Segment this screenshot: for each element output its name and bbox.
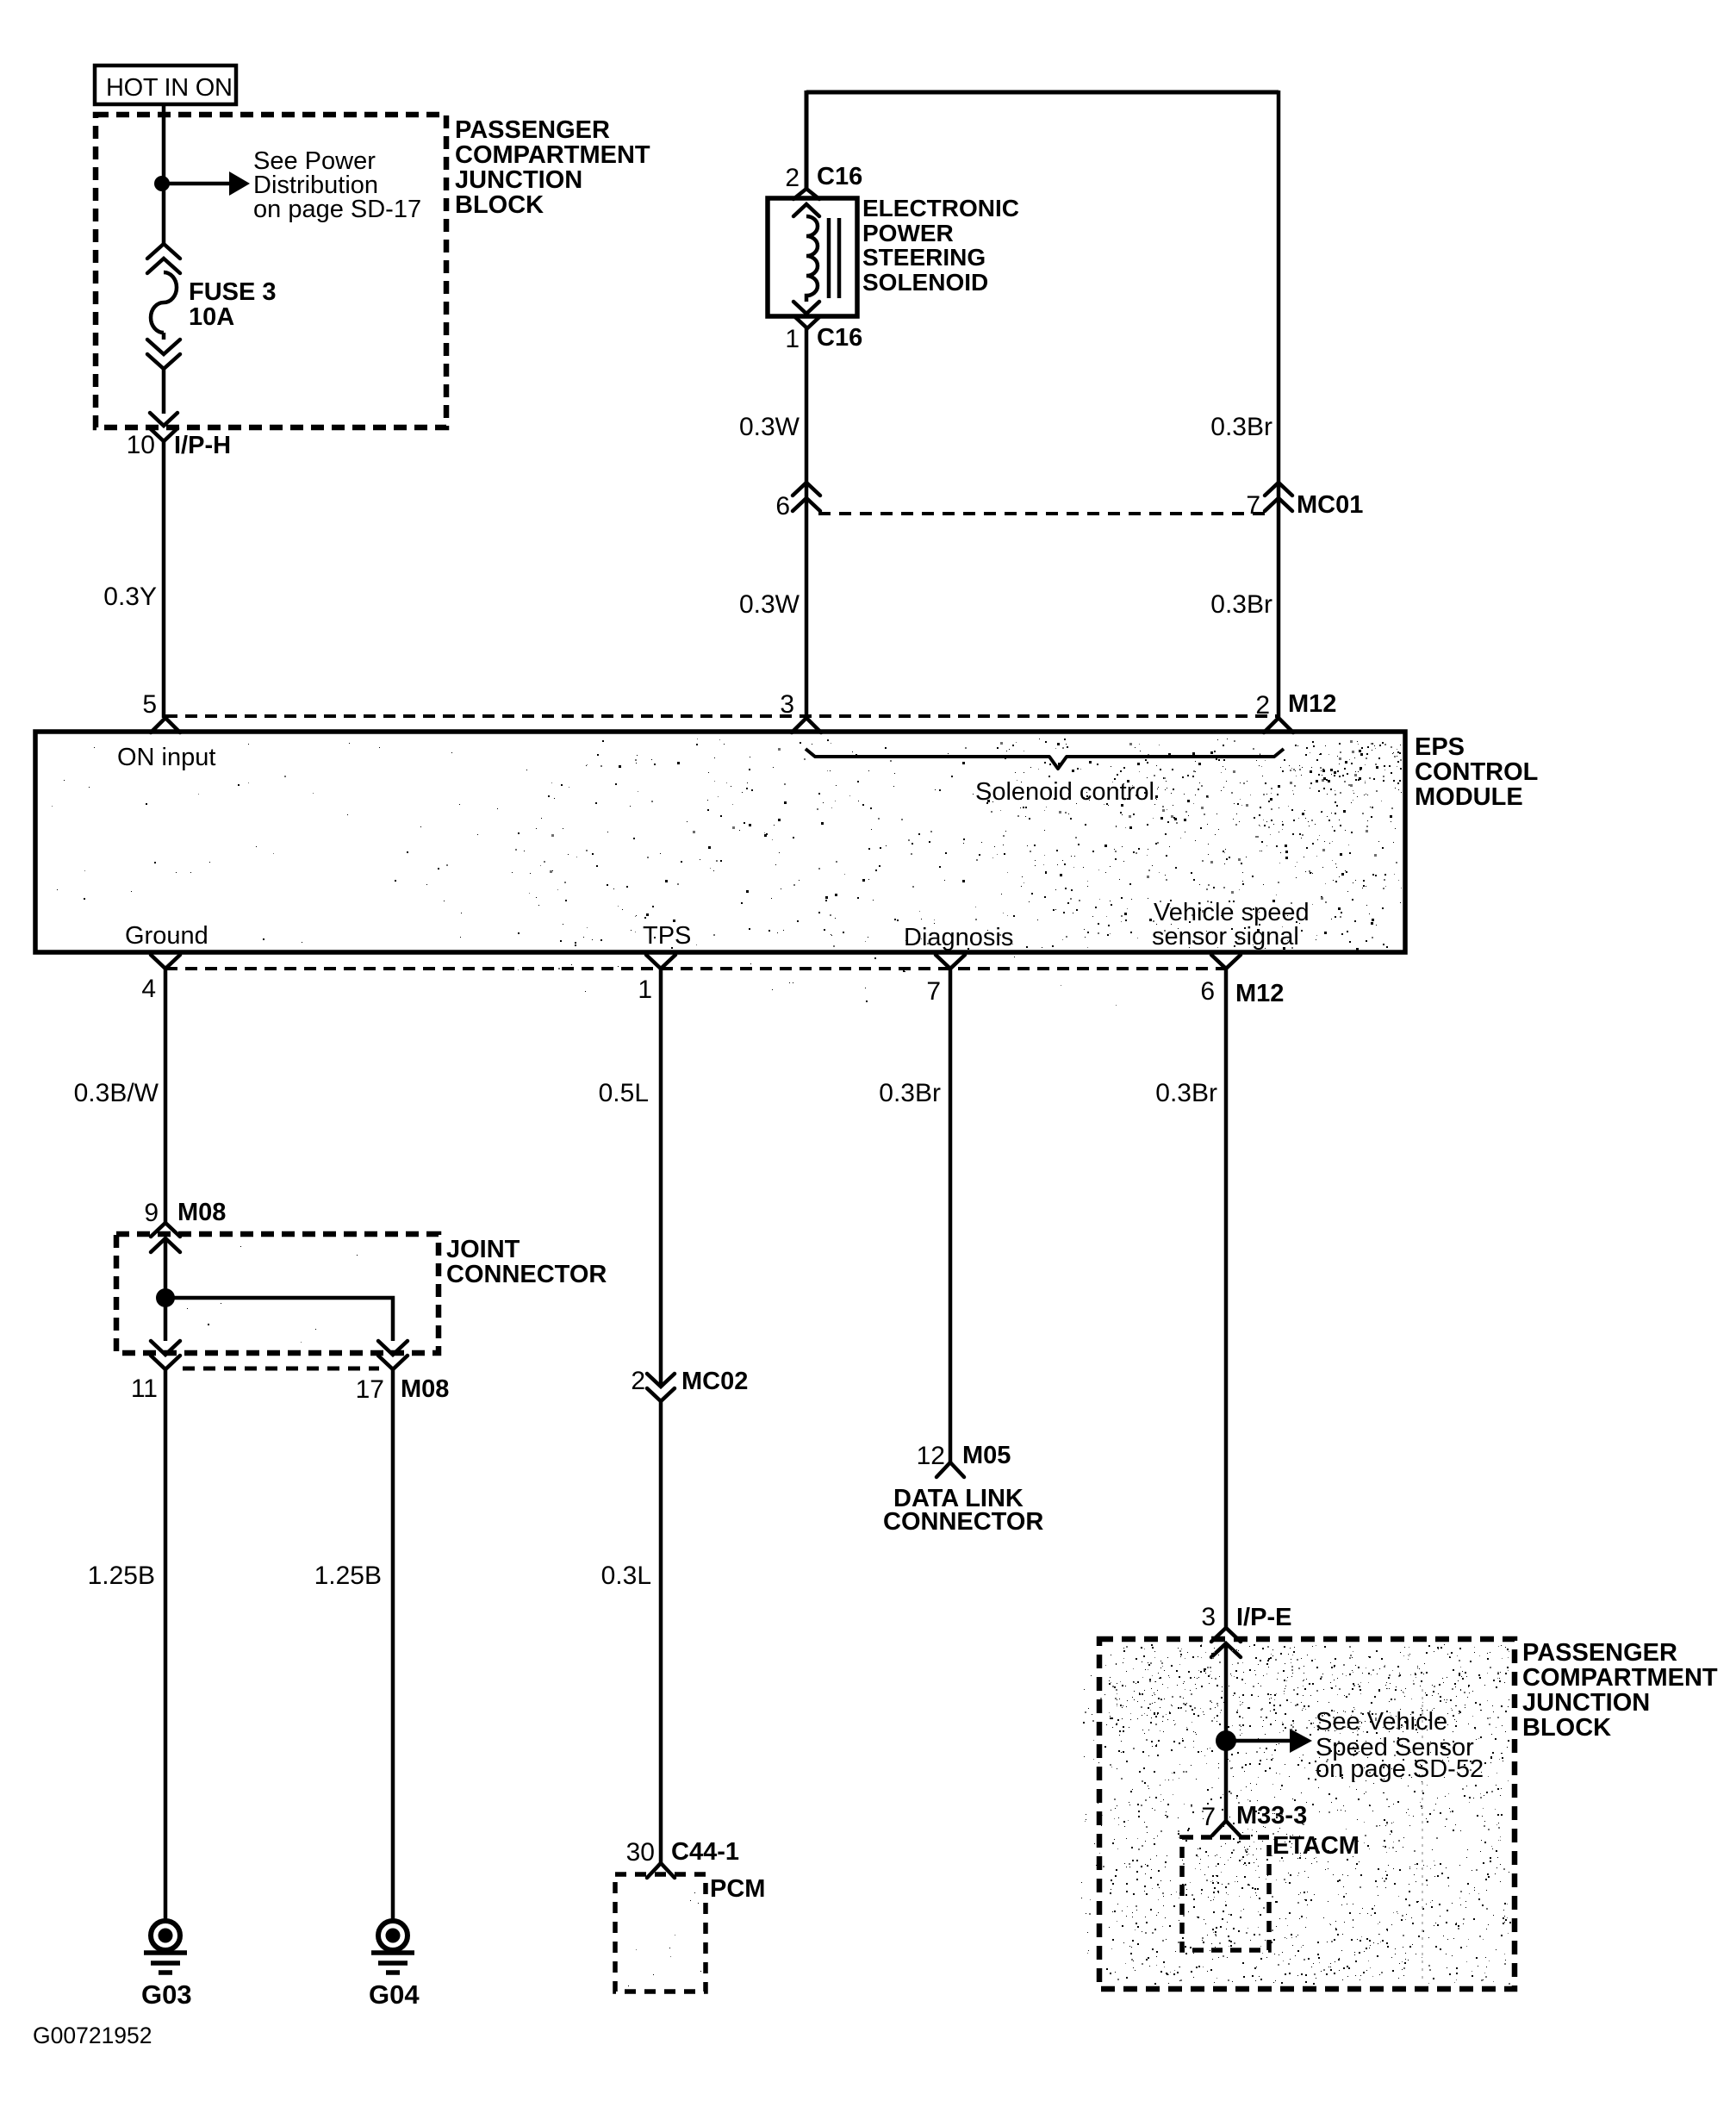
svg-text:1.25B: 1.25B	[314, 1562, 382, 1590]
svg-text:Ground: Ground	[125, 922, 208, 950]
value label FUSE 3 10A	[189, 278, 277, 331]
arrow to vehicle speed sensor note	[1226, 1739, 1291, 1743]
svg-text:0.3Y: 0.3Y	[103, 583, 157, 611]
svg-text:5: 5	[142, 690, 157, 719]
svg-text:MODULE: MODULE	[1415, 783, 1523, 811]
svg-text:ETACM: ETACM	[1272, 1832, 1360, 1860]
svg-text:JOINT: JOINT	[446, 1236, 520, 1263]
ground G04	[378, 1921, 408, 1950]
chevron pin 3 into EPS module	[792, 718, 821, 732]
svg-text:M33-3: M33-3	[1236, 1802, 1307, 1830]
scan noise (EPS module)	[52, 739, 1402, 1006]
svg-text:0.3W: 0.3W	[739, 413, 800, 441]
svg-text:11: 11	[131, 1375, 158, 1403]
svg-text:0.3Br: 0.3Br	[1155, 1079, 1217, 1107]
svg-text:30: 30	[626, 1838, 655, 1867]
wire 0.3L to PCM	[659, 1401, 663, 1863]
svg-text:PASSENGER: PASSENGER	[1522, 1639, 1677, 1667]
dashed harness line below EPS module	[165, 967, 1226, 970]
svg-text:sensor signal: sensor signal	[1152, 923, 1299, 951]
joint connector box (dashed)	[116, 1234, 439, 1353]
svg-text:SOLENOID: SOLENOID	[862, 269, 988, 296]
svg-text:9: 9	[144, 1199, 159, 1227]
solenoid core lines	[827, 218, 831, 298]
svg-text:PCM: PCM	[710, 1875, 765, 1903]
svg-text:ON input: ON input	[117, 744, 215, 771]
connector chevrons pin 11	[151, 1341, 180, 1369]
ground G03	[151, 1921, 180, 1950]
svg-text:7: 7	[926, 977, 941, 1006]
wire 0.3W solenoid to MC01 pin 6	[805, 328, 809, 718]
svg-text:10: 10	[127, 431, 155, 459]
ETACM box (dashed)	[1182, 1837, 1269, 1950]
svg-text:G00721952: G00721952	[33, 2023, 152, 2048]
svg-text:on page SD-52: on page SD-52	[1316, 1755, 1484, 1783]
in-line connector MC01 pin 6	[793, 483, 820, 511]
svg-text:7: 7	[1201, 1803, 1216, 1831]
svg-text:4: 4	[141, 975, 156, 1003]
passenger compartment junction block (top left, dashed)	[96, 115, 446, 427]
svg-text:Solenoid control: Solenoid control	[975, 778, 1154, 806]
junction dot in joint connector	[156, 1288, 175, 1307]
wire 0.3B/W ground branch	[164, 969, 168, 1223]
svg-text:6: 6	[1200, 977, 1215, 1006]
solenoid coil	[806, 216, 818, 302]
svg-text:2: 2	[631, 1367, 645, 1395]
svg-text:0.3Br: 0.3Br	[1210, 590, 1272, 619]
solenoid internal top chevron	[793, 204, 819, 216]
svg-text:POWER: POWER	[862, 220, 954, 246]
svg-text:on page SD-17: on page SD-17	[253, 196, 421, 223]
svg-text:PASSENGER: PASSENGER	[455, 116, 610, 144]
wire 0.5L TPS branch	[659, 969, 663, 1387]
wire inside junction block	[1224, 1643, 1229, 1821]
wire fuse to connector 10 I/P-H	[162, 367, 166, 414]
svg-text:Diagnosis: Diagnosis	[904, 924, 1013, 951]
svg-text:STEERING: STEERING	[862, 244, 986, 271]
svg-text:M05: M05	[962, 1442, 1011, 1469]
svg-text:BLOCK: BLOCK	[1522, 1714, 1611, 1742]
connector chevrons pin 3 I/P-E	[1211, 1628, 1241, 1657]
svg-text:7: 7	[1246, 491, 1260, 520]
svg-text:JUNCTION: JUNCTION	[455, 166, 582, 194]
svg-text:C16: C16	[817, 163, 862, 190]
svg-text:FUSE 3: FUSE 3	[189, 278, 277, 306]
fuse F3 symbol	[147, 244, 180, 369]
connector chevrons pin 17	[378, 1341, 408, 1369]
solenoid internal bottom chevron	[793, 302, 819, 314]
chevron pin 4 out of EPS module	[151, 955, 180, 969]
label PASSENGER COMPARTMENT JUNCTION BLOCK (bottom)	[1522, 1639, 1718, 1742]
svg-text:0.3Br: 0.3Br	[1210, 413, 1272, 441]
junction dot (power tap)	[154, 176, 170, 191]
chevron pin 5 into EPS module	[151, 718, 180, 732]
svg-text:See Vehicle: See Vehicle	[1316, 1708, 1447, 1736]
svg-text:17: 17	[356, 1375, 384, 1404]
svg-text:TPS: TPS	[643, 922, 691, 950]
wire from HOT IN ON down to fuse	[162, 103, 166, 246]
in-line connector MC02	[647, 1374, 675, 1401]
svg-text:MC02: MC02	[681, 1368, 748, 1395]
connector fork at PCM pin 30	[647, 1863, 675, 1878]
wire 0.3Y down to EPS pin 5	[162, 441, 166, 718]
svg-text:BLOCK: BLOCK	[455, 191, 544, 219]
power source label HOT IN ON	[95, 65, 236, 104]
wire down to solenoid pin 2	[805, 90, 809, 190]
connector chevron below solenoid pin 1	[794, 316, 820, 328]
label DATA LINK CONNECTOR	[883, 1485, 1043, 1536]
scan noise (junction block)	[165, 1244, 1511, 1986]
svg-text:M12: M12	[1235, 980, 1284, 1007]
connector chevron at solenoid pin 2	[793, 189, 819, 199]
svg-text:10A: 10A	[189, 303, 234, 331]
svg-text:1: 1	[785, 325, 800, 353]
svg-text:12: 12	[917, 1442, 945, 1470]
svg-text:M08: M08	[401, 1375, 449, 1403]
label EPS CONTROL MODULE	[1415, 733, 1538, 811]
wire 1.25B to G03	[164, 1369, 168, 1920]
svg-text:HOT IN ON: HOT IN ON	[106, 74, 233, 102]
EPS control module box	[35, 732, 1405, 952]
svg-text:0.3W: 0.3W	[739, 590, 800, 619]
svg-text:1: 1	[638, 976, 652, 1004]
passenger compartment junction block (bottom right, dashed)	[1099, 1639, 1515, 1989]
svg-text:CONNECTOR: CONNECTOR	[446, 1261, 607, 1288]
junction dot vehicle speed tap	[1216, 1730, 1236, 1751]
svg-text:G03: G03	[141, 1979, 192, 2010]
electronic power steering solenoid box	[768, 198, 857, 316]
wire jumper to pin 17	[165, 1298, 393, 1341]
chevron pin 1 out of EPS module	[646, 955, 675, 969]
svg-text:0.3B/W: 0.3B/W	[74, 1079, 159, 1107]
svg-text:6: 6	[775, 492, 790, 521]
chevron pin 2 into EPS module	[1264, 718, 1293, 732]
svg-text:C16: C16	[817, 324, 862, 352]
svg-text:CONNECTOR: CONNECTOR	[883, 1508, 1043, 1536]
label ELECTRONIC POWER STEERING SOLENOID	[862, 195, 1019, 296]
connector fork at ETACM pin 7	[1212, 1821, 1240, 1836]
svg-text:3: 3	[1201, 1603, 1216, 1631]
chevron pin 6 out of EPS module	[1211, 955, 1241, 969]
svg-text:0.3L: 0.3L	[601, 1562, 651, 1590]
wire 1.25B to G04	[391, 1369, 395, 1920]
dashed harness line above EPS module	[165, 714, 1279, 718]
label PASSENGER COMPARTMENT JUNCTION BLOCK (top)	[455, 116, 650, 219]
svg-text:M12: M12	[1288, 690, 1336, 718]
brace solenoid control	[806, 749, 1284, 769]
connector pin 10 I/P-H at junction block boundary	[150, 413, 177, 441]
svg-text:COMPARTMENT: COMPARTMENT	[455, 141, 650, 169]
arrow to power distribution note	[164, 182, 231, 186]
wire 0.3Br diagnosis branch	[949, 969, 953, 1462]
svg-text:1.25B: 1.25B	[88, 1562, 155, 1590]
connector fork at data link connector	[936, 1462, 964, 1477]
svg-text:JUNCTION: JUNCTION	[1522, 1689, 1650, 1717]
svg-text:2: 2	[785, 164, 800, 192]
note See Vehicle Speed Sensor on page SD-52	[1316, 1708, 1484, 1783]
PCM box (dashed)	[615, 1874, 706, 1992]
svg-text:G04: G04	[369, 1979, 420, 2010]
in-line connector MC01 pin 7	[1265, 483, 1292, 511]
wire 0.3Br vehicle speed branch	[1224, 969, 1229, 1628]
connector chevrons pin 9 into joint connector	[151, 1223, 180, 1252]
svg-text:ELECTRONIC: ELECTRONIC	[862, 195, 1019, 221]
svg-text:M08: M08	[177, 1199, 226, 1226]
note See Power Distribution on page SD-17	[253, 147, 421, 223]
wire top horizontal (solenoid loop)	[806, 90, 1279, 95]
svg-text:CONTROL: CONTROL	[1415, 758, 1538, 786]
svg-text:0.3Br: 0.3Br	[879, 1079, 941, 1107]
svg-text:I/P-E: I/P-E	[1236, 1604, 1291, 1631]
label JOINT CONNECTOR	[446, 1236, 607, 1288]
svg-text:I/P-H: I/P-H	[174, 432, 231, 459]
dashed connector edge below joint connector	[183, 1367, 379, 1371]
svg-text:COMPARTMENT: COMPARTMENT	[1522, 1664, 1718, 1692]
wire inside joint connector	[164, 1238, 168, 1341]
dashed connector link MC01	[818, 512, 1265, 515]
label Vehicle speed sensor signal	[1152, 899, 1310, 951]
svg-text:EPS: EPS	[1415, 733, 1465, 761]
svg-text:C44-1: C44-1	[671, 1838, 739, 1866]
wire right branch down to MC01 pin 7	[1277, 90, 1281, 718]
svg-text:MC01: MC01	[1297, 491, 1363, 519]
svg-text:0.5L: 0.5L	[599, 1079, 649, 1107]
chevron pin 7 out of EPS module	[936, 955, 965, 969]
